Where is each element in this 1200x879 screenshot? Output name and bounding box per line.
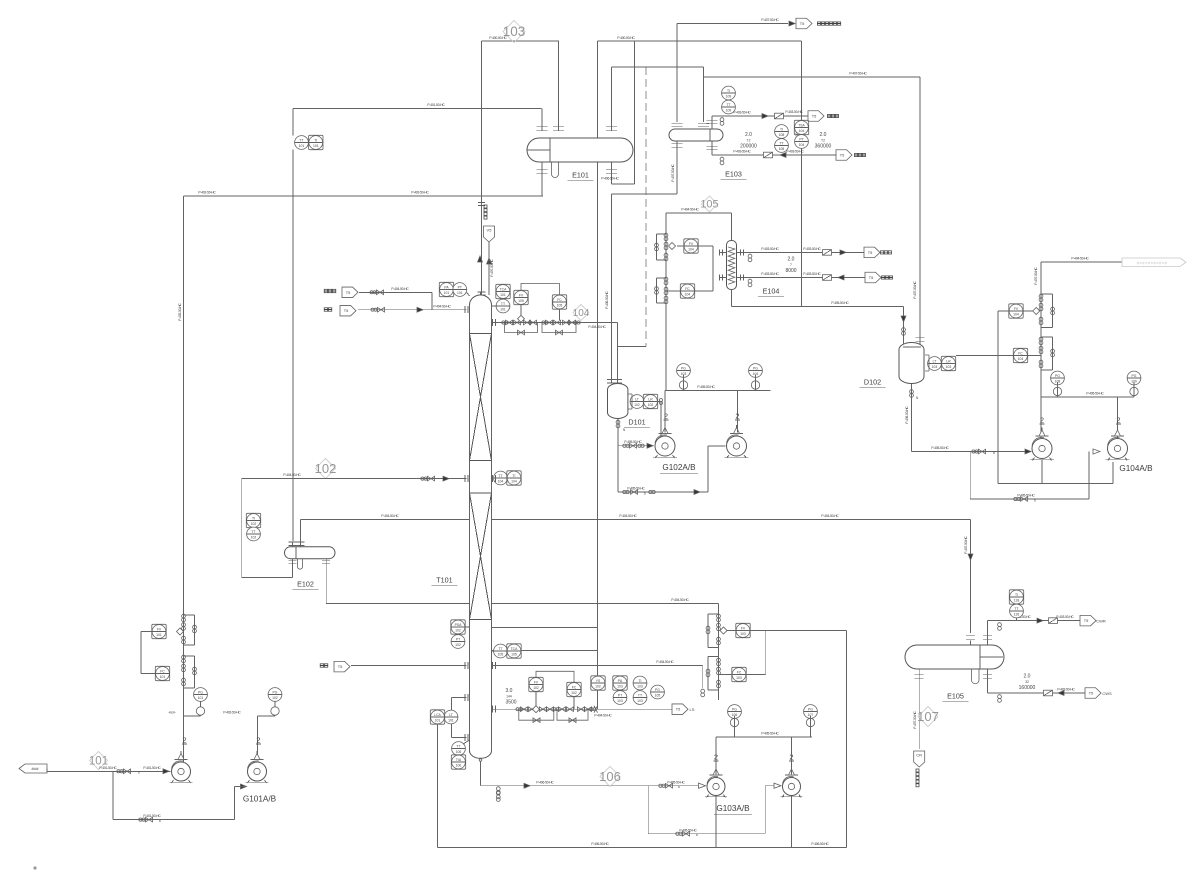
svg-text:101: 101 [500,293,506,297]
svg-text:106: 106 [456,750,462,754]
svg-text:102: 102 [648,403,654,407]
svg-text:101: 101 [435,719,441,723]
svg-text:101: 101 [198,696,204,700]
svg-text:102: 102 [251,536,257,540]
svg-text:2.0: 2.0 [788,257,795,263]
svg-text:106: 106 [456,764,462,768]
svg-text:200000: 200000 [740,144,757,150]
svg-text:E105: E105 [947,692,964,701]
svg-text:FV: FV [689,242,694,246]
svg-text:P-405-50-HC: P-405-50-HC [627,487,645,491]
svg-text:G104A/B: G104A/B [1119,464,1153,473]
svg-text:102: 102 [634,403,640,407]
svg-text:118: 118 [1014,613,1020,617]
svg-text:105: 105 [498,653,504,657]
svg-text:104: 104 [1013,313,1019,317]
svg-text:104: 104 [688,248,694,252]
svg-text:P-404-50-HC: P-404-50-HC [391,287,409,291]
svg-text:-RER-: -RER- [168,711,176,715]
svg-text:102: 102 [315,461,337,476]
svg-text:101: 101 [156,633,162,637]
svg-text:2: 2 [256,736,260,745]
svg-text:P-403-50-HC: P-403-50-HC [761,272,779,276]
svg-text:#×#×#×#×#×#: #×#×#×#×#×# [1137,260,1168,265]
svg-text:3.0: 3.0 [506,688,513,694]
svg-text:P-401-50-HC: P-401-50-HC [143,814,161,818]
svg-text:TT: TT [779,142,783,146]
svg-text:T5: T5 [840,153,845,158]
svg-text:109: 109 [726,109,732,113]
svg-text:101: 101 [299,144,305,148]
svg-text:T5: T5 [676,707,681,712]
svg-text:104: 104 [799,143,805,147]
svg-text:103: 103 [637,685,643,689]
svg-text:P-407-50-HC: P-407-50-HC [671,164,675,182]
svg-text:T5: T5 [868,250,873,255]
svg-text:G102A/B: G102A/B [662,463,696,472]
svg-text:P-405-50-HC: P-405-50-HC [624,440,642,444]
svg-text:T5: T5 [869,275,874,280]
svg-text:P-404-50-HC: P-404-50-HC [656,660,674,664]
svg-text:TT: TT [299,139,303,143]
svg-text:P-401-50-HC: P-401-50-HC [143,766,161,770]
svg-text:P-403-50-HC: P-403-50-HC [803,247,821,251]
svg-text:P-404-50-HC: P-404-50-HC [381,514,399,518]
svg-text:P-404-50-HC: P-404-50-HC [594,714,612,718]
svg-text:P-403-50-HC: P-403-50-HC [785,110,803,114]
svg-text:P-407-50-HC: P-407-50-HC [913,711,917,729]
svg-text:105: 105 [518,299,524,303]
svg-text:CWR: CWR [1096,619,1106,624]
svg-text:P-408-50-HC: P-408-50-HC [605,291,609,309]
svg-text:P-404-50-HC: P-404-50-HC [283,473,301,477]
svg-text:108: 108 [779,133,785,137]
svg-text:104: 104 [685,293,691,297]
svg-text:P-407-50-HC: P-407-50-HC [913,281,917,299]
svg-text:104: 104 [511,480,517,484]
svg-text:P-401-50-HC: P-401-50-HC [99,766,117,770]
svg-text:CR: CR [916,753,922,758]
svg-text:P-405-50-HC: P-405-50-HC [931,446,949,450]
svg-text:2.0: 2.0 [1024,674,1031,680]
svg-text:P-402-50-HC: P-402-50-HC [411,191,429,195]
svg-text:P-403-50-HC: P-403-50-HC [1056,615,1074,619]
svg-text:2.0: 2.0 [745,132,752,138]
svg-text:103: 103 [932,365,938,369]
svg-text:P-405-50-HC: P-405-50-HC [761,732,779,736]
svg-text:104: 104 [1018,357,1024,361]
svg-text:103: 103 [637,699,643,703]
svg-text:105: 105 [511,653,517,657]
svg-text:TI: TI [314,139,317,143]
svg-text:TI: TI [780,128,783,132]
svg-text:T5: T5 [338,664,343,669]
svg-text:102: 102 [251,522,257,526]
svg-text:104: 104 [498,480,504,484]
svg-text:CWS: CWS [1102,691,1112,696]
svg-text:360000: 360000 [815,144,832,150]
svg-text:E103: E103 [725,170,742,179]
svg-text:P-406-50-HC: P-406-50-HC [536,780,554,784]
svg-text:P-403-50-HC: P-403-50-HC [1057,688,1075,692]
svg-text:105: 105 [557,304,563,308]
svg-text:P-405-50-HC: P-405-50-HC [1086,392,1104,396]
svg-text:2: 2 [664,412,668,421]
svg-text:2: 2 [1040,416,1044,425]
svg-text:102: 102 [455,643,461,647]
svg-text:####: #### [31,767,38,771]
svg-text:E104: E104 [763,287,780,296]
svg-text:P-406-50-HC: P-406-50-HC [591,842,609,846]
svg-text:P-407-50-HC: P-407-50-HC [761,18,779,22]
svg-text:P-407-50-HC: P-407-50-HC [1034,267,1038,285]
svg-text:P-407-50-HC: P-407-50-HC [964,536,968,554]
svg-text:LS: LS [690,707,695,712]
svg-text:103: 103 [617,699,623,703]
svg-text:108: 108 [779,147,785,151]
svg-text:T101: T101 [436,576,452,585]
svg-text:P-406-50-HC: P-406-50-HC [601,177,619,181]
svg-text:P-405-50-HC: P-405-50-HC [831,301,849,305]
svg-text:8000: 8000 [785,268,796,274]
svg-text:P-401-50-HC: P-401-50-HC [427,103,445,107]
svg-text:105: 105 [700,199,718,211]
svg-text:32: 32 [1025,680,1029,684]
svg-text:P-403-50-HC: P-403-50-HC [761,247,779,251]
svg-text:101: 101 [457,291,463,295]
svg-text:P-406-50-HC: P-406-50-HC [905,406,909,424]
svg-text:P-404-50-HC: P-404-50-HC [821,514,839,518]
svg-text:T2: T2 [821,139,825,143]
svg-text:PT: PT [799,138,803,142]
svg-text:P-405-50-HC: P-405-50-HC [697,385,715,389]
svg-text:103: 103 [736,676,742,680]
svg-text:118: 118 [1014,599,1020,603]
svg-text:P-406-50-HC: P-406-50-HC [811,842,829,846]
svg-text:P-404-50-HC: P-404-50-HC [588,325,606,329]
svg-text:7: 7 [790,263,792,267]
svg-text:P-404-50-HC: P-404-50-HC [433,304,451,308]
svg-text:101: 101 [448,719,454,723]
svg-text:101: 101 [444,291,450,295]
svg-text:G101A/B: G101A/B [243,795,277,804]
svg-text:P-407-50-HC: P-407-50-HC [849,72,867,76]
svg-text:102: 102 [571,691,577,695]
svg-text:P-403-50-HC: P-403-50-HC [803,272,821,276]
svg-text:D101: D101 [628,418,645,427]
svg-text:103: 103 [503,24,526,39]
svg-text:106: 106 [599,769,621,784]
svg-text:P-402-50-HC: P-402-50-HC [178,303,182,321]
svg-text:V5: V5 [487,228,493,233]
svg-text:102: 102 [455,629,461,633]
svg-text:P-407-50-HC: P-407-50-HC [490,259,494,277]
svg-text:105: 105 [655,694,661,698]
svg-text:101: 101 [313,144,319,148]
svg-text:P-405-50-HC: P-405-50-HC [679,828,697,832]
svg-text:P-403-50-HC: P-403-50-HC [733,150,751,154]
svg-text:160000: 160000 [1019,685,1036,691]
svg-text:2.0: 2.0 [820,132,827,138]
svg-text:2: 2 [182,736,186,745]
svg-text:G103A/B: G103A/B [716,804,750,813]
svg-text:2: 2 [1116,416,1120,425]
svg-text:103: 103 [617,685,623,689]
svg-text:P-403-50-HC: P-403-50-HC [733,111,751,115]
svg-text:P-402-50-HC: P-402-50-HC [198,191,216,195]
svg-text:P-405-50-HC: P-405-50-HC [1017,494,1035,498]
svg-text:3500: 3500 [505,700,516,706]
svg-text:144: 144 [506,695,512,699]
svg-text:103: 103 [740,632,746,636]
svg-text:E101: E101 [572,171,589,180]
svg-text:P-404-50-HC: P-404-50-HC [681,208,699,212]
svg-text:T5: T5 [344,308,349,313]
svg-text:104: 104 [573,308,590,319]
svg-text:T5: T5 [800,21,805,26]
svg-text:102: 102 [595,685,601,689]
svg-text:P-405-50-HC: P-405-50-HC [667,780,685,784]
svg-text:103: 103 [946,365,952,369]
svg-text:104: 104 [799,129,805,133]
svg-text:T5: T5 [812,114,817,119]
svg-text:T5: T5 [1084,618,1089,623]
svg-text:P-404-50-HC: P-404-50-HC [1071,257,1089,261]
svg-text:101: 101 [500,308,506,312]
svg-text:P-404-50-HC: P-404-50-HC [619,514,637,518]
svg-text:P-402-50-HC: P-402-50-HC [223,711,241,715]
svg-text:E102: E102 [297,580,314,589]
svg-text:T5: T5 [1089,691,1094,696]
svg-text:107: 107 [917,709,939,724]
svg-text:T2: T2 [747,139,751,143]
svg-text:D102: D102 [864,378,881,387]
svg-text:102: 102 [533,686,539,690]
svg-text:P-403-50-HC: P-403-50-HC [786,150,804,154]
svg-text:T5: T5 [346,290,351,295]
svg-text:109: 109 [726,95,732,99]
svg-text:P-400-50-HC: P-400-50-HC [617,36,635,40]
svg-text:102: 102 [272,696,278,700]
svg-text:P-404-50-HC: P-404-50-HC [671,598,689,602]
svg-text:101: 101 [160,675,166,679]
